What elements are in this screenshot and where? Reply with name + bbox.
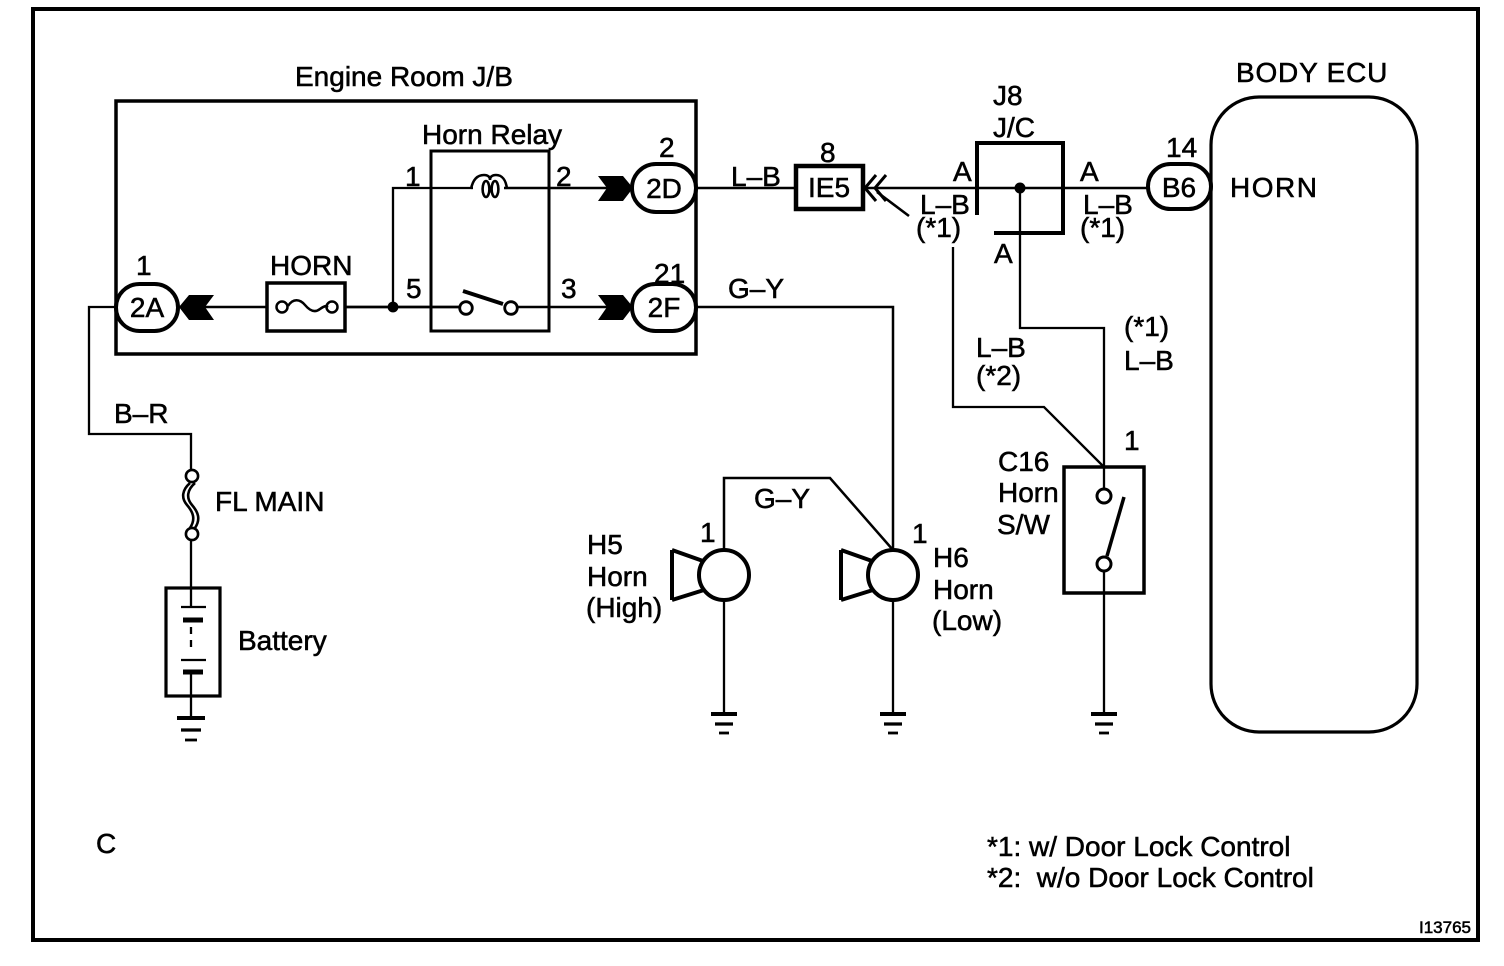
- ground H5: [711, 714, 737, 733]
- wire horn H6 to ground: [892, 601, 894, 714]
- fuse HORN box: [267, 283, 345, 331]
- svg-text:2: 2: [659, 132, 675, 163]
- switch lever: [1107, 497, 1124, 556]
- svg-text:(High): (High): [586, 592, 662, 623]
- svg-text:Engine Room J/B: Engine Room J/B: [295, 61, 513, 92]
- svg-text:S/W: S/W: [997, 509, 1050, 540]
- wire 2F to horn H6: [696, 307, 893, 552]
- wire J8 to horn switch C16: [1020, 190, 1104, 489]
- ground horn switch: [1091, 714, 1117, 733]
- svg-text:L–B: L–B: [1124, 345, 1174, 376]
- svg-text:2D: 2D: [646, 173, 682, 204]
- Horn Relay box: [431, 151, 549, 331]
- wire 2A to FL MAIN: [89, 307, 191, 471]
- svg-text:*1: w/ Door Lock Control: *1: w/ Door Lock Control: [987, 831, 1290, 862]
- svg-text:B6: B6: [1162, 172, 1196, 203]
- svg-text:2F: 2F: [648, 292, 681, 323]
- connector B6: [1148, 164, 1211, 209]
- svg-text:3: 3: [561, 273, 577, 304]
- horn switch C16 box: [1064, 467, 1144, 593]
- svg-text:1: 1: [700, 517, 716, 548]
- connector 2A: [116, 284, 178, 331]
- svg-text:I13765: I13765: [1419, 918, 1471, 937]
- svg-text:14: 14: [1166, 132, 1197, 163]
- svg-text:(*1): (*1): [916, 212, 961, 243]
- junction dot node A: [1015, 183, 1026, 194]
- wire battery to ground: [190, 672, 192, 718]
- svg-text:A: A: [1080, 156, 1099, 187]
- svg-text:G–Y: G–Y: [754, 483, 810, 514]
- junction node: [388, 302, 399, 313]
- connector 2D: [632, 164, 696, 212]
- svg-text:J/C: J/C: [993, 112, 1035, 143]
- arrow into 2A: [179, 295, 214, 320]
- svg-text:BODY ECU: BODY ECU: [1236, 57, 1388, 88]
- arrow into 2F: [598, 295, 633, 320]
- svg-text:L–B: L–B: [976, 332, 1026, 363]
- wire FL MAIN to battery: [190, 538, 192, 588]
- svg-text:8: 8: [820, 137, 836, 168]
- horn H5: [672, 550, 749, 600]
- svg-text:C16: C16: [998, 446, 1049, 477]
- svg-text:G–Y: G–Y: [728, 273, 784, 304]
- connector 2F: [632, 284, 696, 331]
- svg-text:Battery: Battery: [238, 625, 327, 656]
- svg-text:H5: H5: [587, 529, 623, 560]
- svg-text:HORN: HORN: [270, 250, 352, 281]
- wire fuse to relay switch: [345, 306, 460, 309]
- battery cells: [181, 588, 206, 672]
- wire horn switch to ground: [1103, 571, 1105, 714]
- svg-text:1: 1: [1124, 425, 1140, 456]
- svg-text:A: A: [994, 238, 1013, 269]
- svg-text:1: 1: [912, 518, 928, 549]
- wire 2D to IE5: [696, 187, 796, 190]
- svg-text:(*1): (*1): [1124, 311, 1169, 342]
- svg-text:B–R: B–R: [114, 398, 168, 429]
- ground battery: [177, 718, 205, 740]
- svg-text:FL MAIN: FL MAIN: [215, 486, 324, 517]
- wire branch to horn H5: [724, 478, 893, 552]
- svg-text:H6: H6: [933, 542, 969, 573]
- svg-text:HORN: HORN: [1230, 172, 1318, 203]
- svg-text:Horn: Horn: [933, 574, 994, 605]
- Engine Room J/B box: [116, 101, 696, 354]
- svg-text:L–B: L–B: [731, 161, 781, 192]
- wire coil to connector 2D: [504, 187, 634, 190]
- svg-text:*2: w/o Door Lock Control: *2: w/o Door Lock Control: [987, 862, 1314, 893]
- svg-text:A: A: [953, 156, 972, 187]
- junction connector J8 J/C box: [975, 141, 1065, 233]
- svg-text:1: 1: [136, 250, 152, 281]
- svg-text:C: C: [96, 828, 116, 859]
- chevron arrows at IE5: [865, 175, 886, 201]
- switch contact top: [1097, 489, 1111, 503]
- battery box: [166, 588, 220, 696]
- arrow into 2D: [598, 176, 633, 201]
- svg-text:Horn: Horn: [587, 561, 648, 592]
- switch contact bottom: [1097, 557, 1111, 571]
- connector IE5: [796, 166, 863, 209]
- relay switch contact left: [460, 302, 473, 315]
- svg-text:1: 1: [405, 161, 421, 192]
- wire horn H5 to ground: [723, 601, 725, 714]
- BODY ECU box: [1211, 97, 1417, 732]
- fuse element: [277, 300, 338, 312]
- wire 2A to fuse: [178, 306, 267, 309]
- fusible link FL MAIN: [183, 470, 198, 540]
- relay switch lever: [463, 291, 503, 304]
- svg-text:5: 5: [406, 273, 422, 304]
- svg-text:2: 2: [556, 161, 572, 192]
- relay coil: [471, 175, 507, 197]
- svg-text:(*1): (*1): [1080, 212, 1125, 243]
- svg-text:(*2): (*2): [976, 360, 1021, 391]
- wire relay switch to 2F: [518, 306, 634, 309]
- relay switch contact right: [505, 302, 518, 315]
- annotation leader line: [877, 192, 909, 216]
- svg-text:J8: J8: [993, 80, 1023, 111]
- horn H6: [841, 550, 918, 600]
- svg-text:Horn: Horn: [998, 477, 1059, 508]
- svg-text:IE5: IE5: [808, 172, 850, 203]
- wire L-B (*2) branch to horn switch: [953, 247, 1104, 467]
- ground H6: [880, 714, 906, 733]
- svg-text:2A: 2A: [130, 292, 165, 323]
- wire IE5 to B6: [863, 187, 1148, 190]
- wire pin1 of relay to junction: [393, 188, 473, 307]
- svg-text:Horn Relay: Horn Relay: [422, 119, 562, 150]
- svg-text:(Low): (Low): [932, 605, 1002, 636]
